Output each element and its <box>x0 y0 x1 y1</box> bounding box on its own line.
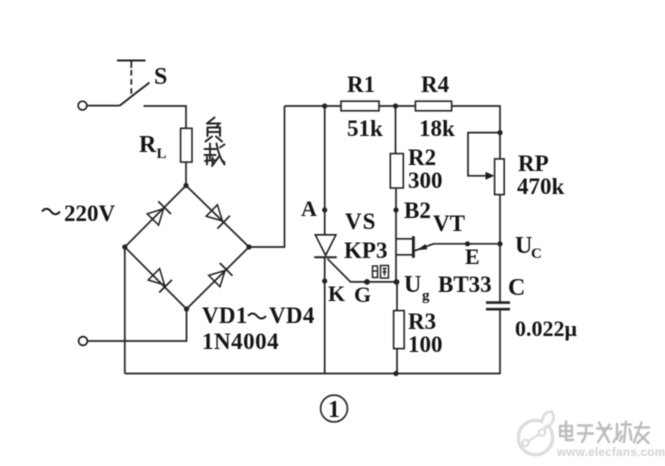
svg-text:C: C <box>531 246 542 262</box>
svg-text:A: A <box>301 196 317 221</box>
node bridge right <box>246 244 251 249</box>
VT emitter <box>415 244 434 251</box>
wire RL to bridge top <box>185 162 187 185</box>
svg-text:470k: 470k <box>517 174 565 199</box>
svg-text:G: G <box>354 282 371 307</box>
svg-text:VT: VT <box>433 211 465 236</box>
watermark logo circle <box>518 412 553 455</box>
svg-text:R1: R1 <box>347 72 375 97</box>
label ~220V <box>42 209 60 215</box>
svg-text:L: L <box>157 146 167 162</box>
wire R4 to right corner <box>452 105 500 107</box>
node Ug <box>394 279 400 285</box>
svg-text:R: R <box>139 132 157 158</box>
wire bridge arm top-left <box>125 186 186 248</box>
node bridge left <box>122 244 127 249</box>
wire right rail down to RP <box>499 105 501 159</box>
svg-text:1N4004: 1N4004 <box>202 329 279 354</box>
svg-text:300: 300 <box>408 168 443 193</box>
svg-text:100: 100 <box>408 332 443 357</box>
node E <box>465 241 470 246</box>
svg-text:K: K <box>328 281 345 306</box>
svg-text:220V: 220V <box>64 201 116 226</box>
svg-text:0.022μ: 0.022μ <box>515 316 578 341</box>
wire R2 to Ug node <box>395 188 397 282</box>
diode VD3 (bottom-left) <box>148 269 172 293</box>
svg-text:KP3: KP3 <box>344 238 387 263</box>
potentiometer RP <box>495 159 505 195</box>
terminal AC input top <box>78 101 87 110</box>
svg-text:www.elecfans.com: www.elecfans.com <box>556 445 665 459</box>
svg-text:VS: VS <box>345 209 376 234</box>
node top rail R2 branch <box>393 103 398 108</box>
resistor R1 <box>341 101 379 111</box>
svg-text:U: U <box>404 272 421 298</box>
svg-text:R2: R2 <box>408 145 436 170</box>
wire bridge arm top-right <box>186 186 249 248</box>
switch S actuator <box>117 61 146 98</box>
wire RP to C top <box>499 195 501 302</box>
node B2 <box>393 207 398 212</box>
wire bridge arm bottom-left <box>125 247 187 309</box>
svg-text:U: U <box>515 233 532 259</box>
terminal AC input bottom <box>79 337 88 346</box>
svg-text:R4: R4 <box>421 72 450 97</box>
svg-text:S: S <box>154 64 167 90</box>
wire C to bottom rail <box>499 309 501 374</box>
wire emitter to UC <box>433 243 500 245</box>
thyristor VS <box>314 235 337 257</box>
node top rail SCR branch <box>322 103 327 108</box>
resistor R4 <box>415 101 451 111</box>
figure number 1 <box>321 395 348 423</box>
svg-text:R3: R3 <box>408 309 436 334</box>
node UC <box>497 241 502 246</box>
node R3 bottom <box>393 371 398 376</box>
svg-text:VD1: VD1 <box>202 303 248 328</box>
svg-text:51k: 51k <box>347 116 383 141</box>
wire R3 to bottom rail <box>396 349 398 374</box>
svg-text:1: 1 <box>328 397 340 423</box>
node gate wire <box>364 279 370 285</box>
wire SCR cathode down <box>324 257 326 373</box>
watermark text 电子发烧友 <box>560 422 649 444</box>
wire bridge left to bottom rail <box>124 247 126 374</box>
wire R2 branch <box>395 106 397 154</box>
wire terminal to switch <box>87 105 120 107</box>
label load 载 <box>205 144 225 167</box>
svg-text:B2: B2 <box>404 198 431 223</box>
svg-text:E: E <box>465 244 480 269</box>
resistor R3 <box>394 311 405 349</box>
svg-text:18k: 18k <box>419 116 455 141</box>
wire switch to RL <box>144 106 187 129</box>
label load 负 <box>206 118 223 142</box>
diode VD1 (top-left) <box>147 201 171 225</box>
small boxed glyph <box>373 266 389 279</box>
wire bridge arm bottom-right <box>187 247 250 309</box>
RP wiper arrow <box>486 172 495 180</box>
svg-text:C: C <box>508 275 525 301</box>
wire top rail left segment <box>285 105 342 107</box>
node RP top branch <box>497 130 502 135</box>
svg-text:BT33: BT33 <box>438 272 492 297</box>
wire bottom rail <box>125 373 501 375</box>
capacitor C <box>486 303 510 310</box>
diode VD4 (bottom-right) <box>209 263 233 287</box>
wire SCR gate <box>328 259 397 282</box>
node on cathode line <box>322 278 327 283</box>
transistor VT base bar <box>412 236 415 258</box>
svg-text:RP: RP <box>518 151 549 176</box>
wire terminal to bridge bottom <box>87 309 186 341</box>
UJT B1 lead <box>396 254 413 256</box>
node bridge top <box>183 183 188 188</box>
resistor R2 <box>390 154 403 188</box>
wire RP wiper link <box>468 133 500 176</box>
switch S blade <box>120 83 150 106</box>
wire bridge right to top rail <box>249 106 285 247</box>
resistor RL <box>181 128 192 162</box>
UJT B2 lead <box>396 238 413 240</box>
node bridge bottom <box>184 306 189 311</box>
svg-text:g: g <box>422 288 430 304</box>
wire SCR anode branch <box>324 106 326 235</box>
svg-text:VD4: VD4 <box>269 303 315 328</box>
wire Ug to R3 <box>396 282 398 311</box>
diode VD2 (top-right) <box>206 205 230 229</box>
wire R1 to R4 <box>379 105 415 107</box>
node A <box>322 207 327 212</box>
